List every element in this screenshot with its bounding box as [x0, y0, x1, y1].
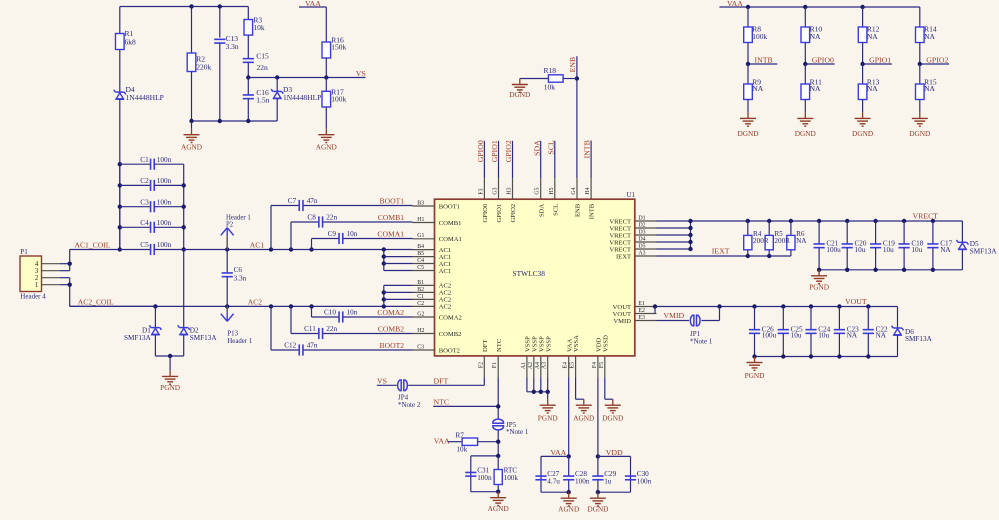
chip pin A3 IEXT (right)	[616, 250, 657, 260]
svg-text:R18: R18	[544, 66, 557, 75]
svg-text:C2: C2	[417, 301, 424, 307]
svg-text:220k: 220k	[196, 63, 211, 72]
svg-text:A1: A1	[521, 362, 527, 369]
svg-text:F3: F3	[478, 188, 484, 194]
svg-text:VRECT: VRECT	[609, 246, 631, 253]
svg-text:GPIO0: GPIO0	[812, 55, 834, 64]
wire R2 to bottom rail	[191, 72, 193, 122]
power port VAA (top right rail)	[719, 0, 919, 9]
svg-text:100n: 100n	[575, 478, 590, 486]
capacitor C2 100n	[120, 177, 184, 191]
svg-text:3: 3	[35, 268, 39, 275]
resistor R17 100k	[322, 78, 347, 108]
svg-text:6k8: 6k8	[125, 38, 137, 47]
chip pin F3 GPIO0 (top)	[478, 178, 489, 222]
svg-text:H4: H4	[585, 187, 591, 194]
capacitor C9 10n	[312, 230, 413, 244]
svg-text:SMF13A: SMF13A	[970, 248, 998, 256]
wire VAA rail to R10	[804, 7, 806, 27]
svg-text:B1: B1	[417, 280, 424, 286]
svg-text:PGND: PGND	[809, 282, 829, 291]
connector P13 Header 1 (arrow)	[221, 306, 252, 345]
wire VSSA to AGND	[576, 378, 584, 400]
svg-text:100n: 100n	[157, 177, 172, 185]
wire cap bank left rail (AC1_COIL)	[118, 162, 122, 252]
svg-text:SCL: SCL	[552, 204, 559, 216]
svg-text:GPIO2: GPIO2	[926, 55, 948, 64]
wire VOUT cap bottom rail	[752, 354, 897, 358]
svg-text:47n: 47n	[307, 341, 318, 349]
svg-text:100u: 100u	[826, 246, 841, 254]
svg-text:VRECT: VRECT	[609, 225, 631, 232]
wire AC2 rail down to C10	[311, 306, 313, 317]
ground DGND (under R9)	[747, 100, 749, 113]
svg-text:G2: G2	[417, 311, 424, 317]
svg-text:NA: NA	[847, 332, 858, 340]
svg-text:B4: B4	[417, 244, 424, 250]
wire net ENB (vertical)	[575, 56, 579, 178]
svg-text:NA: NA	[796, 237, 807, 245]
wire cap bank right rail (AC1)	[182, 164, 186, 252]
svg-text:3.3n: 3.3n	[226, 42, 239, 51]
svg-text:AC2: AC2	[439, 304, 451, 311]
capacitor C4 100n	[120, 219, 184, 233]
chip pin E3 VMID (right)	[613, 315, 656, 325]
svg-text:NTC: NTC	[496, 338, 503, 352]
label R4 200R	[753, 230, 769, 245]
svg-text:NA: NA	[752, 84, 763, 93]
chip pin B4 AC1 (left)	[413, 244, 452, 254]
svg-text:IEXT: IEXT	[712, 247, 730, 256]
capacitor C17 NA	[927, 221, 952, 270]
chip pin G2 COMA2 (left)	[413, 311, 462, 321]
ground DGND (R18)	[519, 79, 521, 85]
svg-text:NA: NA	[940, 246, 951, 254]
capacitor C23 NA	[834, 307, 859, 357]
wire net VAA (chip E4 down)	[567, 378, 571, 459]
capacitor C24 10u	[805, 307, 830, 357]
wire AC2 rail down to C11	[290, 306, 292, 333]
svg-text:D1: D1	[639, 215, 646, 221]
svg-text:PGND: PGND	[160, 383, 180, 392]
chip pin A1 VSSP (bottom)	[521, 336, 532, 378]
svg-text:VSSP: VSSP	[545, 336, 552, 352]
svg-text:Header 4: Header 4	[20, 293, 46, 301]
wire AC1 rail up to C8	[290, 222, 292, 250]
svg-text:NA: NA	[810, 84, 821, 93]
svg-text:10n: 10n	[347, 230, 358, 238]
chip pin B3 BOOT1 (left)	[413, 200, 460, 210]
svg-text:SDA: SDA	[538, 204, 545, 217]
jumper JP1 *Note 1	[690, 315, 713, 345]
node INTB stub	[746, 62, 778, 66]
wire node to R11	[804, 64, 806, 84]
svg-text:10n: 10n	[347, 308, 358, 316]
capacitor C27 4.7u	[535, 470, 560, 485]
svg-text:BOOT1: BOOT1	[380, 196, 405, 205]
svg-text:VRECT: VRECT	[609, 239, 631, 246]
wire R7 to NTC node	[478, 431, 501, 456]
svg-text:E5: E5	[570, 362, 576, 369]
wire node to R9	[747, 64, 749, 84]
wire net VOUT (E1/E2 join + horizontal)	[653, 304, 898, 313]
node GPIO0 stub	[803, 62, 835, 66]
svg-text:C1: C1	[140, 156, 149, 164]
svg-text:150k: 150k	[331, 43, 346, 52]
ground AGND (C27/C28)	[568, 492, 570, 498]
wire R18 to DGND	[520, 78, 549, 80]
svg-text:P2: P2	[226, 222, 234, 229]
svg-text:100n: 100n	[157, 198, 172, 206]
chip pin F5 VSSD (bottom)	[599, 335, 610, 378]
svg-text:E2: E2	[639, 308, 646, 314]
wire net SCL (top)	[554, 141, 556, 178]
svg-text:C5: C5	[140, 241, 149, 249]
wire AC1 rail up to C7	[270, 206, 272, 250]
svg-text:10k: 10k	[456, 446, 467, 454]
svg-text:DGND: DGND	[587, 505, 608, 514]
svg-text:100n: 100n	[157, 219, 172, 227]
svg-text:C10: C10	[324, 308, 336, 316]
svg-text:VAA: VAA	[550, 448, 566, 457]
wire VAA to R16	[325, 7, 327, 42]
resistor R2 220k	[187, 53, 211, 72]
svg-text:U1: U1	[627, 191, 636, 199]
svg-text:COMB2: COMB2	[439, 331, 462, 338]
wire R1 to D4	[119, 50, 121, 93]
ground AGND (under R17)	[325, 107, 327, 129]
svg-text:DGND: DGND	[737, 129, 758, 138]
svg-text:F2: F2	[478, 362, 484, 368]
diode D2 SMF13A (from AC1)	[178, 250, 218, 357]
jumper JP4 *Note 2	[398, 380, 421, 409]
chip pin F2 DFT (bottom)	[478, 340, 489, 378]
svg-text:A2: A2	[528, 362, 534, 369]
capacitor C10 10n	[312, 308, 413, 322]
power port VAA (R7)	[434, 436, 462, 445]
svg-text:ENB: ENB	[575, 203, 582, 217]
svg-text:DGND: DGND	[602, 413, 623, 422]
chip pin F4 VDD (bottom)	[592, 337, 603, 377]
svg-text:G5: G5	[535, 187, 541, 194]
svg-text:C4: C4	[140, 219, 149, 227]
wire net GPIO1 (top)	[498, 141, 500, 178]
wire R12 to node GPIO1	[862, 43, 864, 65]
resistor R6 NA	[787, 221, 795, 256]
wire C15 to VS line	[247, 63, 249, 78]
svg-text:C7: C7	[288, 197, 297, 205]
svg-text:C5: C5	[417, 265, 424, 271]
capacitor C21 100u	[814, 221, 842, 270]
svg-text:100u: 100u	[762, 332, 777, 340]
capacitor C29 1u	[592, 470, 616, 485]
capacitor C19 10u	[870, 221, 895, 270]
svg-text:22n: 22n	[326, 325, 337, 333]
chip pin C3 BOOT2 (left)	[413, 344, 460, 354]
capacitor C20 10u	[842, 221, 867, 270]
svg-text:COMB1: COMB1	[439, 220, 462, 227]
ground DGND (VSSD)	[612, 399, 614, 405]
wire net INTB (top)	[590, 141, 592, 179]
svg-text:10k: 10k	[253, 23, 265, 32]
svg-text:VSSA: VSSA	[573, 335, 580, 352]
svg-text:GPIO2: GPIO2	[504, 140, 513, 162]
capacitor C30 100n	[625, 470, 652, 485]
wire net IEXT	[657, 254, 791, 258]
wire net AC2 (main horizontal)	[70, 304, 413, 308]
svg-text:100k: 100k	[331, 95, 346, 104]
svg-text:BOOT2: BOOT2	[439, 347, 460, 354]
svg-text:VOUT: VOUT	[845, 297, 867, 306]
svg-text:GPIO0: GPIO0	[482, 203, 489, 222]
wire net NTC	[433, 378, 500, 419]
capacitor C6 3.3n	[222, 250, 247, 307]
node GPIO1 stub	[860, 62, 892, 66]
chip pin E5 VSSA (bottom)	[570, 335, 581, 378]
capacitor C11 22n	[291, 325, 413, 339]
chip pin G4 ENB (top)	[571, 178, 582, 217]
chip pin H3 GPIO2 (top)	[507, 178, 518, 222]
chip pin H1 COMB1 (left)	[413, 217, 462, 227]
svg-text:A3: A3	[639, 250, 646, 256]
svg-text:100n: 100n	[477, 474, 492, 482]
wire VSSP pins to PGND	[527, 378, 550, 400]
wire C27/C28 loop	[541, 456, 571, 494]
ground PGND (D1/D2)	[169, 356, 171, 370]
resistor R1 6k8	[116, 29, 137, 49]
svg-text:PGND: PGND	[538, 413, 558, 422]
svg-text:AGND: AGND	[316, 143, 337, 152]
svg-text:AGND: AGND	[488, 504, 509, 513]
svg-text:B2: B2	[417, 287, 424, 293]
svg-text:10k: 10k	[544, 82, 556, 91]
svg-text:1: 1	[35, 282, 38, 289]
svg-text:200R: 200R	[774, 237, 790, 245]
svg-text:22n: 22n	[326, 213, 337, 221]
resistor R12 NA	[858, 25, 879, 43]
chip pin G3 GPIO1 (top)	[493, 178, 504, 222]
chip pin E1 VOUT (right)	[613, 301, 657, 311]
wire R8 to node INTB	[747, 43, 749, 65]
chip pin H5 SCL (top)	[549, 178, 560, 216]
chip pin E2 VOUT (right)	[613, 308, 657, 318]
wire R14 to node GPIO2	[919, 43, 921, 65]
chip pin D3 VRECT (right)	[609, 229, 656, 239]
capacitor C31 100n	[465, 467, 492, 482]
chip pin D5 VRECT (right)	[609, 243, 656, 253]
svg-text:DGND: DGND	[795, 129, 816, 138]
wire VAA rail to R12	[862, 7, 864, 27]
diode D4 1N4448HLP	[114, 85, 164, 102]
svg-text:C1: C1	[417, 294, 424, 300]
svg-text:SMF13A: SMF13A	[124, 334, 152, 342]
wire R18 to ENB node	[563, 78, 577, 80]
chip pin D1 VRECT (right)	[609, 215, 656, 225]
ground AGND (bias network)	[191, 121, 193, 129]
svg-text:100n: 100n	[637, 478, 652, 486]
svg-text:GPIO1: GPIO1	[869, 55, 891, 64]
capacitor C7 47n	[271, 197, 413, 211]
svg-text:H5: H5	[549, 187, 555, 194]
svg-text:G4: G4	[571, 187, 577, 194]
svg-text:10u: 10u	[855, 246, 866, 254]
resistor R16 150k	[322, 35, 347, 58]
capacitor C5 100n	[120, 241, 184, 255]
svg-text:C4: C4	[417, 258, 424, 264]
diode D1 SMF13A	[124, 306, 161, 356]
svg-text:10u: 10u	[883, 246, 894, 254]
wire R10 to node GPIO0	[804, 43, 806, 65]
svg-text:P13: P13	[227, 331, 238, 338]
chip pin B1 AC2 (left)	[413, 280, 452, 290]
svg-text:D4: D4	[639, 236, 646, 242]
svg-text:A4: A4	[535, 362, 541, 369]
node GPIO2 stub	[918, 62, 950, 66]
op-chip U1 STWLC38 body	[435, 191, 636, 356]
wire net VMID with jumper JP1	[657, 307, 720, 321]
chip pin H4 INTB (top)	[585, 178, 596, 219]
svg-text:SCL: SCL	[546, 140, 555, 155]
svg-text:NA: NA	[924, 32, 935, 41]
resistor R15 NA	[916, 78, 937, 100]
svg-text:VRECT: VRECT	[609, 218, 631, 225]
capacitor C25 10u	[778, 307, 803, 357]
svg-text:B3: B3	[417, 200, 424, 206]
svg-text:DFT: DFT	[482, 340, 489, 352]
chip pin B5 AC1 (left)	[413, 251, 452, 261]
chip pin A4 VSSP (bottom)	[535, 336, 546, 378]
wire node to R13	[862, 64, 864, 84]
wire AC2 rail down to C12	[270, 306, 272, 350]
wire top rail (R1/R2/C13/R3 tops)	[120, 4, 249, 53]
svg-text:DGND: DGND	[909, 129, 930, 138]
jumper JP5 *Note 1	[493, 419, 529, 436]
wire net GPIO0 (top)	[483, 141, 485, 178]
svg-text:AC2: AC2	[439, 283, 451, 290]
chip pin G5 SDA (top)	[535, 178, 546, 217]
svg-text:AGND: AGND	[573, 413, 594, 422]
svg-text:STWLC38: STWLC38	[513, 269, 546, 278]
svg-text:R7: R7	[456, 432, 465, 440]
svg-text:AC1: AC1	[250, 240, 265, 249]
wire net SDA (top)	[540, 141, 542, 178]
svg-text:GPIO1: GPIO1	[496, 204, 503, 223]
svg-text:A3: A3	[542, 362, 548, 369]
svg-text:E4: E4	[563, 362, 569, 369]
diode D5 SMF13A	[957, 221, 998, 270]
svg-text:ENB: ENB	[568, 57, 577, 73]
wire R3 to C15	[247, 35, 249, 58]
ground DGND (under R13)	[862, 100, 864, 113]
label R5 200R	[774, 230, 790, 245]
svg-text:COMA1: COMA1	[377, 229, 404, 238]
wire P1 pins 4,3 to AC1_COIL	[68, 250, 120, 271]
svg-text:E3: E3	[639, 315, 646, 321]
wire net DFT with jumper JP4	[377, 378, 485, 386]
ground DGND (under R15)	[919, 100, 921, 113]
ground AGND (VSSA)	[583, 399, 585, 405]
svg-text:H2: H2	[417, 328, 424, 334]
svg-text:VS: VS	[356, 69, 366, 78]
resistor R7 10k	[456, 432, 478, 454]
svg-text:COMA1: COMA1	[439, 236, 462, 243]
svg-text:NA: NA	[876, 332, 887, 340]
svg-text:AC2: AC2	[439, 290, 451, 297]
svg-text:D5: D5	[639, 243, 646, 249]
svg-text:E1: E1	[639, 301, 646, 307]
resistor R4 200R	[744, 221, 752, 256]
ground DGND (under R11)	[804, 100, 806, 113]
wire P1 pins 2,1 to AC2_COIL	[68, 278, 156, 307]
wire C29/C30 loop	[596, 456, 631, 494]
svg-text:VRECT: VRECT	[913, 212, 939, 221]
ground PGND (VRECT caps)	[818, 270, 820, 276]
svg-text:4.7u: 4.7u	[547, 478, 560, 486]
wire R16 to VS node	[325, 58, 327, 78]
wire VSSD to DGND	[605, 378, 613, 400]
svg-text:INTB: INTB	[583, 140, 592, 158]
capacitor C15 22n	[243, 51, 269, 72]
svg-text:C6: C6	[234, 266, 243, 274]
wire VRECT cap bottom rail	[817, 268, 963, 272]
resistor R8 100k	[744, 25, 768, 43]
svg-text:10u: 10u	[791, 332, 802, 340]
svg-text:Header 1: Header 1	[227, 338, 252, 345]
svg-text:INTB: INTB	[589, 203, 596, 219]
svg-text:GPIO1: GPIO1	[490, 140, 499, 162]
ground PGND (VSSP)	[547, 399, 549, 405]
wire node to R15	[919, 64, 921, 84]
resistor R3 10k	[244, 15, 265, 35]
svg-text:COMA2: COMA2	[377, 308, 404, 317]
svg-text:F4: F4	[592, 362, 598, 368]
svg-text:BOOT2: BOOT2	[380, 341, 405, 350]
wire net VS	[246, 75, 365, 79]
diode D6 SMF13A	[892, 307, 933, 357]
capacitor C28 100n	[563, 470, 590, 485]
chip pin C1 AC2 (left)	[413, 294, 452, 304]
chip pin E4 VAA (bottom)	[563, 338, 574, 377]
svg-text:GPIO0: GPIO0	[476, 140, 485, 162]
resistor R10 NA	[801, 25, 822, 43]
svg-text:INTB: INTB	[755, 55, 773, 64]
svg-text:100n: 100n	[157, 156, 172, 164]
svg-text:VDD: VDD	[606, 448, 623, 457]
svg-text:NTC: NTC	[434, 397, 450, 406]
wire net AC1 (main horizontal)	[184, 247, 413, 251]
svg-text:VOUT: VOUT	[613, 311, 631, 318]
chip pin D2 VRECT (right)	[609, 222, 656, 232]
wire VAA rail to R8	[747, 7, 749, 27]
svg-text:*Note 1: *Note 1	[690, 337, 713, 345]
svg-text:*Note 2: *Note 2	[398, 401, 421, 409]
svg-text:C9: C9	[328, 230, 337, 238]
wire AC2 pin fan (B1,B2,C1,C2)	[382, 285, 413, 306]
svg-text:10u: 10u	[911, 246, 922, 254]
svg-text:AGND: AGND	[181, 143, 202, 152]
svg-text:IEXT: IEXT	[616, 253, 631, 260]
chip pin C2 AC2 (left)	[413, 301, 452, 311]
svg-text:AGND: AGND	[558, 505, 579, 514]
diode D3 1N4448HLP	[271, 78, 321, 122]
svg-text:2: 2	[35, 275, 39, 282]
ground PGND (VOUT caps)	[754, 357, 756, 363]
svg-text:H3: H3	[507, 187, 513, 194]
svg-text:COMB1: COMB1	[378, 213, 404, 222]
svg-text:10u: 10u	[818, 332, 829, 340]
svg-text:C2: C2	[140, 177, 149, 185]
wire RTC/C31 loop	[471, 454, 501, 494]
